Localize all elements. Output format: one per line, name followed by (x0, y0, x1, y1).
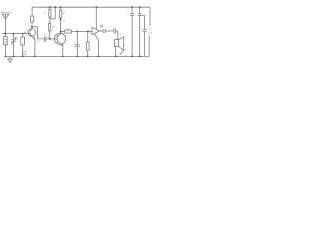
wire C4 down (76, 31, 78, 44)
svg-text:AM antenna: AM antenna (1, 11, 13, 14)
wire Q2 emitter down (62, 46, 64, 57)
wire C2 to node B (46, 38, 54, 40)
wire U1 output (100, 30, 103, 32)
speaker LS1 (114, 40, 118, 47)
antenna AN1 (2, 14, 9, 33)
wire emitter to C2 (32, 27, 44, 39)
svg-text:8: 8 (120, 33, 122, 35)
capacitor C6 (130, 14, 134, 16)
transistor Q2 (54, 33, 65, 44)
wire C8 top stub (140, 16, 145, 30)
variable capacitor VC1 (11, 37, 16, 44)
bottom rail 0V (5, 55, 149, 57)
svg-text:Q1: Q1 (37, 41, 41, 43)
wire Q1 collector (31, 22, 33, 29)
wire rail to R1 (49, 7, 51, 9)
junction dot Q1 collector (31, 26, 33, 28)
svg-text:R2: R2 (63, 13, 67, 15)
wire R4 to amp input (72, 30, 93, 32)
wire rail to C7 (139, 7, 141, 14)
wire C5 to speaker (116, 31, 118, 40)
svg-text:D1: D1 (62, 21, 66, 23)
wire output to C5 (106, 30, 114, 32)
wire U1 ground pin (94, 34, 98, 57)
wire base arrow into Q1 (24, 32, 25, 34)
wire VC1 bottom (13, 42, 15, 57)
wire C4 to rail (76, 46, 78, 56)
svg-text:1k: 1k (44, 13, 47, 15)
junction dot C4 tap (76, 31, 78, 33)
rail junction dots (49, 6, 141, 8)
svg-text:snap: snap (148, 32, 152, 34)
label C1 (22, 52, 25, 55)
wire R1 to junction (49, 17, 51, 23)
wire C1 bottom (22, 45, 24, 56)
wire R5 to rail (87, 50, 89, 56)
capacitor C1 box (21, 37, 25, 45)
wire C1 top (22, 34, 24, 37)
resistor R3 box (59, 10, 62, 17)
bottom rail junction dots (5, 56, 141, 58)
resistor R4 box horizontal (65, 30, 72, 33)
wire arrow into amp (89, 31, 91, 33)
resistor R5 box (86, 42, 89, 50)
capacitor C7 (138, 14, 142, 16)
capacitor C4 (75, 45, 80, 47)
resistor R1 box (49, 9, 51, 17)
wire C6 to rail (131, 16, 133, 57)
wire L1 bottom (4, 45, 6, 57)
capacitor C2 (44, 37, 46, 42)
transistor Q1 (28, 29, 36, 37)
wire right edge (149, 7, 151, 24)
junction dot collector (60, 31, 62, 33)
wire R2 to base node (49, 31, 51, 39)
svg-text:L1: L1 (34, 19, 37, 21)
resistor R2 box (49, 23, 51, 31)
wire L1 top (4, 34, 6, 37)
capacitor C5 (114, 28, 116, 34)
svg-text:+9V: +9V (148, 29, 152, 31)
inductor L1 box (4, 37, 8, 45)
wire collector node to R4 (61, 30, 65, 32)
inductor L2 box (31, 16, 34, 22)
wire R3 down to collector (60, 18, 62, 32)
wire C8 to rail (144, 31, 146, 56)
wire node A horizontal (2, 33, 28, 35)
svg-text:T1: T1 (28, 25, 31, 27)
svg-text:C: C (17, 39, 19, 41)
capacitor C8 (143, 30, 147, 32)
node output circle (103, 30, 106, 33)
wire U1 power pin (95, 7, 97, 29)
junction dot R3 wire (60, 19, 62, 21)
wire L2 to rail corner (31, 7, 33, 16)
op-amp U1 triangle (92, 27, 100, 34)
svg-text:1M: 1M (52, 27, 55, 29)
wire VC1 top (13, 34, 15, 40)
wire rail to R3 (60, 7, 62, 10)
wire Q1 emitter down (34, 39, 36, 56)
wire speaker to rail (115, 47, 117, 57)
svg-text:+: + (127, 13, 129, 16)
svg-text:C: C (9, 39, 11, 41)
ground symbol (8, 56, 13, 62)
svg-text:Q2: Q2 (47, 37, 51, 39)
wire rail to C6 (131, 7, 133, 14)
wire stub x55 (50, 7, 55, 19)
top rail V+ (32, 6, 150, 8)
svg-text:C2: C2 (43, 35, 47, 37)
node A junction dots (5, 33, 24, 35)
svg-text:C: C (135, 14, 137, 16)
wire C7 down to rail (139, 16, 141, 57)
junction dot R5 tap (87, 31, 89, 33)
wire R5 down (87, 31, 89, 42)
label U1 (101, 25, 103, 27)
junction node B dot (49, 38, 51, 40)
